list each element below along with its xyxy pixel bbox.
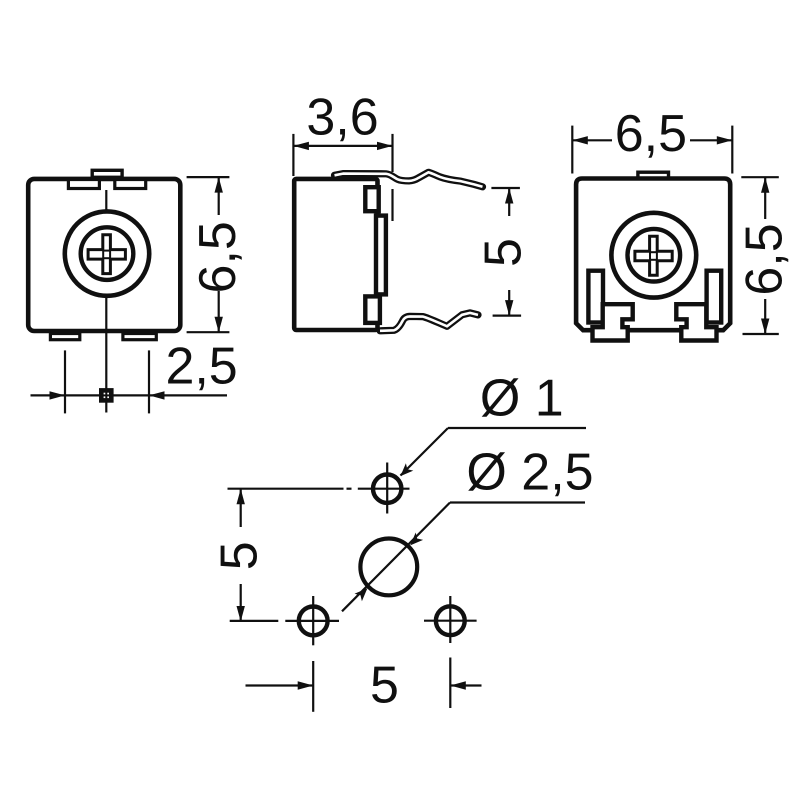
- arrowhead left-pointing: [149, 391, 165, 399]
- top pin view2: [335, 172, 483, 187]
- crosshair hole bottom-left: [312, 596, 314, 645]
- leader underline Ø 2,5: [450, 501, 585, 503]
- clip arm+foot right view3: [676, 304, 716, 340]
- phillips cross view1: [88, 235, 125, 274]
- top clip rect view2: [365, 187, 378, 211]
- extension line from vertical dim to hole top: [228, 488, 344, 490]
- dimension 2,5 below view1: [31, 350, 228, 413]
- extension line left of hole bottom-left: [230, 620, 279, 622]
- dimension 5 horizontal (pad layout): [246, 684, 482, 686]
- extension tick bottom: [493, 315, 521, 317]
- top tab view1: [92, 170, 122, 177]
- arrowhead right-pointing: [717, 136, 733, 144]
- extension line below hole bottom-right: [449, 658, 451, 709]
- extension line left: [64, 350, 66, 413]
- dimension 5 right of view2: [491, 188, 521, 316]
- arrowhead leader Ø 1: [400, 463, 413, 476]
- arrowhead down: [761, 319, 769, 335]
- hole bottom-left: [299, 607, 328, 636]
- center square marker: [101, 390, 111, 400]
- notch right view1: [115, 180, 146, 189]
- svg-text:2,5: 2,5: [165, 338, 237, 396]
- extension tick top: [491, 187, 520, 189]
- svg-text:5: 5: [211, 541, 269, 570]
- centerline view1: [105, 172, 107, 413]
- arrowhead left-pointing: [572, 136, 588, 144]
- dimension 6,5 above view3: [572, 126, 732, 174]
- hole bottom-right: [436, 606, 465, 635]
- diagonal diameter line through big hole: [342, 503, 450, 612]
- clip arm+foot left view3: [593, 304, 633, 340]
- clip post right view3: [707, 271, 722, 323]
- bottom clip rect view2: [365, 296, 380, 323]
- dimension 5 vertical (pad layout): [240, 489, 242, 622]
- bottom tab left view1: [50, 334, 79, 340]
- dimension line: [31, 394, 228, 396]
- svg-text:Ø 2,5: Ø 2,5: [466, 444, 593, 502]
- phillips center square view3: [650, 252, 657, 260]
- phillips cross view3: [635, 236, 672, 275]
- screw inner circle view1: [81, 227, 134, 280]
- hole top: [373, 475, 401, 503]
- hole big center: [360, 539, 417, 596]
- extension line left: [292, 134, 294, 176]
- bottom tab right view1: [123, 334, 156, 340]
- body view1: [28, 179, 180, 331]
- extension line bottom: [743, 333, 779, 335]
- marker inner cross: [105, 391, 107, 401]
- screw outer circle view3: [611, 213, 696, 298]
- phillips center square view1: [103, 251, 110, 259]
- extension line top: [187, 176, 230, 178]
- dimension line segments: [218, 177, 220, 215]
- rotor strip view2: [376, 216, 386, 295]
- arrowhead diameter lower: [355, 588, 368, 601]
- extension line left: [571, 126, 573, 174]
- dimension line segments: [508, 188, 510, 216]
- arrowhead up: [237, 489, 245, 505]
- svg-text:5: 5: [475, 238, 533, 267]
- svg-text:Ø 1: Ø 1: [480, 370, 564, 428]
- crosshair hole bottom-right: [449, 596, 451, 643]
- leader Ø 1 diagonal: [401, 428, 449, 476]
- notch left view1: [68, 180, 99, 189]
- svg-text:6,5: 6,5: [189, 221, 247, 293]
- body view3: [576, 179, 730, 331]
- arrowhead down: [237, 606, 245, 622]
- clip post left view3: [588, 271, 603, 323]
- dimension line segments: [764, 177, 766, 219]
- arrowhead left-pointing: [293, 142, 309, 150]
- svg-text:6,5: 6,5: [736, 223, 794, 295]
- dimension 6,5 right of view1: [187, 177, 230, 332]
- extension line top: [741, 176, 779, 178]
- arrowhead right-pointing: [50, 391, 66, 399]
- extension line right: [731, 126, 733, 174]
- dimension line: [293, 145, 392, 147]
- top tab view3: [638, 172, 669, 178]
- bottom pin view2: [380, 313, 478, 331]
- arrowhead right-pointing: [298, 681, 314, 689]
- dimension 3,6 above view2: [293, 134, 392, 221]
- arrowhead down: [215, 317, 223, 333]
- arrowhead up: [215, 177, 223, 193]
- extension line right: [148, 350, 150, 413]
- body view2: [294, 179, 377, 330]
- centerline view1 inner segment: [105, 190, 107, 330]
- svg-text:5: 5: [370, 657, 399, 715]
- screw outer circle view1: [65, 211, 149, 295]
- arrowhead left-pointing: [450, 681, 466, 689]
- arrowhead diameter upper: [410, 533, 423, 546]
- extension line below hole bottom-left: [312, 661, 314, 712]
- leader underline Ø 1: [448, 427, 586, 429]
- extension line bottom: [187, 331, 230, 333]
- arrowhead up: [505, 188, 513, 204]
- dimension line segments: [572, 139, 612, 141]
- arrowhead down: [505, 300, 513, 316]
- crosshair hole top: [386, 463, 388, 514]
- dimension 6,5 right of view3: [741, 177, 779, 334]
- arrowhead right-pointing: [377, 142, 393, 150]
- arrowhead up: [761, 177, 769, 193]
- screw inner circle view3: [628, 229, 681, 282]
- svg-text:3,6: 3,6: [306, 88, 378, 146]
- extension line right: [391, 134, 393, 172]
- svg-text:6,5: 6,5: [615, 105, 687, 163]
